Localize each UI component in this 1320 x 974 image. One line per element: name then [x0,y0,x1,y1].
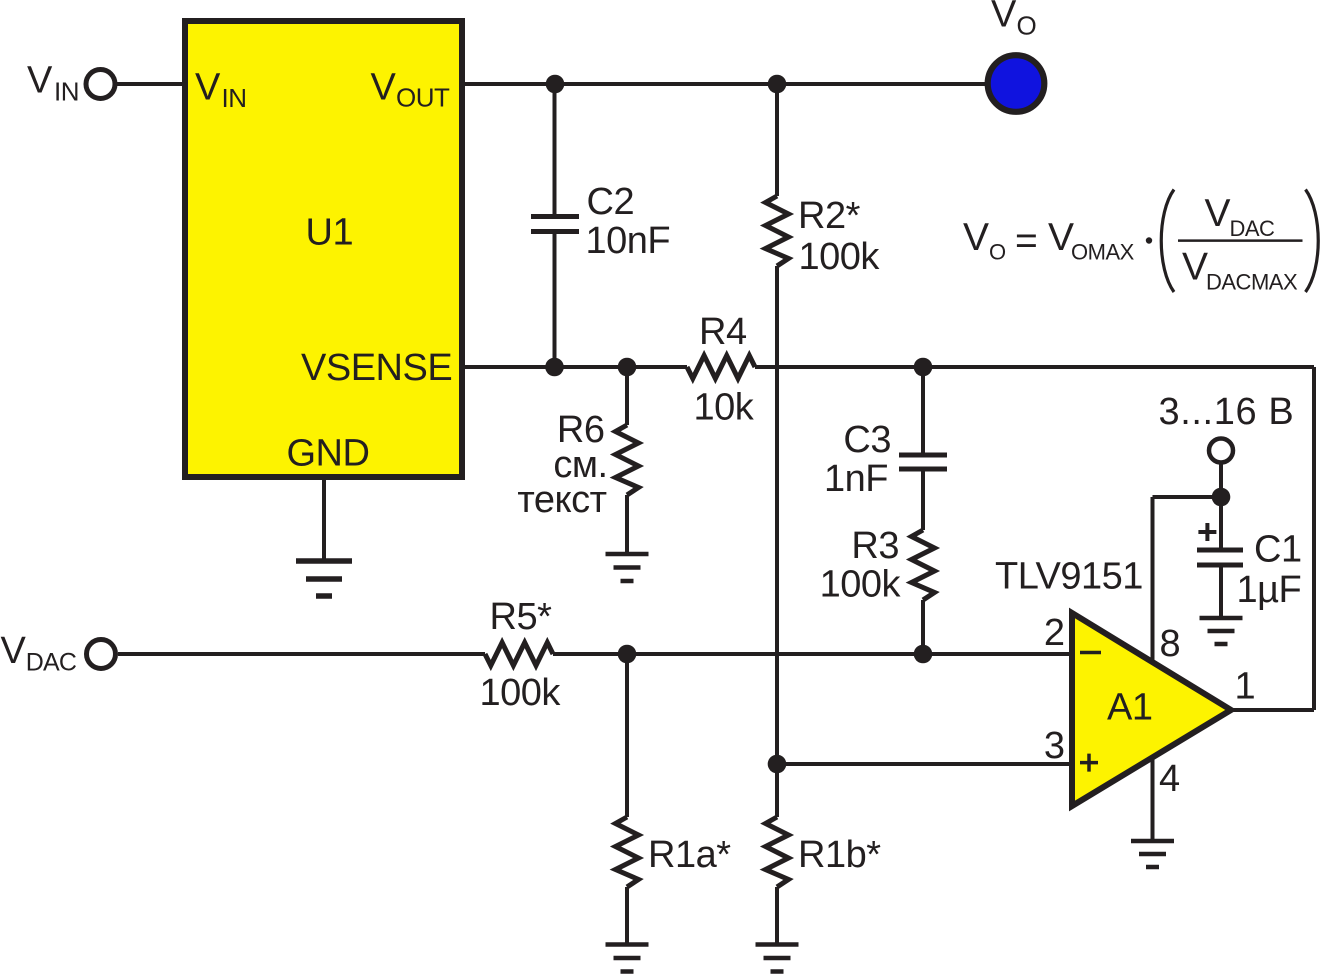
svg-text:100k: 100k [799,236,881,278]
svg-text:O: O [1017,11,1037,41]
svg-text:R3: R3 [851,525,899,567]
svg-text:V: V [1205,192,1231,235]
svg-text:1nF: 1nF [824,458,888,500]
svg-text:R1a*: R1a* [648,834,731,876]
svg-text:C1: C1 [1254,529,1302,571]
svg-text:DAC: DAC [1230,216,1276,241]
svg-text:R5*: R5* [490,596,553,638]
svg-text:O: O [989,240,1006,265]
svg-text:V: V [1182,246,1208,289]
svg-text:3...16 В: 3...16 В [1159,391,1295,433]
svg-text:IN: IN [54,77,79,107]
svg-text:V: V [991,0,1017,36]
svg-text:U1: U1 [306,212,354,254]
svg-text:DAC: DAC [26,649,77,677]
svg-text:IN: IN [222,83,247,113]
svg-text:100k: 100k [480,672,562,714]
svg-text:R1b*: R1b* [798,834,881,876]
svg-text:1: 1 [1235,666,1256,708]
svg-text:3: 3 [1044,725,1065,767]
svg-text:1µF: 1µF [1237,569,1302,611]
svg-text:V: V [1,630,27,672]
svg-text:GND: GND [287,433,370,475]
svg-text:8: 8 [1160,623,1181,665]
svg-text:10k: 10k [694,387,755,429]
svg-text:R2*: R2* [798,195,861,237]
svg-text:OMAX: OMAX [1071,240,1135,265]
svg-text:V: V [371,67,397,109]
svg-text:A1: A1 [1107,687,1152,729]
svg-text:100k: 100k [820,564,902,606]
svg-text:V: V [963,216,989,259]
svg-text:R4: R4 [699,311,747,353]
svg-text:V: V [27,60,53,102]
svg-text:TLV9151: TLV9151 [995,556,1143,598]
svg-text:10nF: 10nF [586,220,671,262]
svg-text:C2: C2 [587,181,635,223]
svg-text:2: 2 [1044,612,1065,654]
svg-text:VSENSE: VSENSE [301,347,452,389]
svg-text:C3: C3 [843,419,891,461]
svg-text:V: V [195,67,221,109]
svg-text:текст: текст [517,479,606,521]
svg-text:DACMAX: DACMAX [1206,270,1298,295]
svg-text:4: 4 [1159,758,1180,800]
svg-text:=: = [1015,220,1037,263]
svg-text:OUT: OUT [396,83,450,113]
